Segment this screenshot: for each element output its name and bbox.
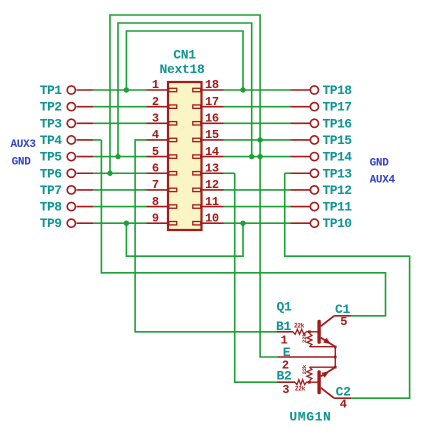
test point TP17 pin line — [291, 106, 311, 108]
test point TP12 circle — [310, 186, 318, 194]
wire R4 top to emitter rail — [309, 366, 335, 368]
wire pin13 down to transistor base B2 — [235, 173, 277, 382]
junction TP15 net outer loop — [257, 137, 262, 142]
wire outer loop TP6-TP15 net to emitter E — [110, 15, 278, 357]
wire connector pin 17 to TP17 — [224, 106, 291, 108]
svg-text:Q1: Q1 — [277, 300, 293, 315]
test point TP8 pin line — [77, 206, 94, 208]
resistor R2 22k base-emitter upper — [307, 333, 312, 346]
test point TP15 pin line — [291, 139, 311, 141]
connector pin 12 line — [202, 189, 224, 191]
test point TP3 circle — [67, 119, 75, 127]
svg-text:TP8: TP8 — [40, 200, 63, 215]
test point TP18 circle — [310, 86, 318, 94]
svg-text:TP1: TP1 — [40, 83, 63, 98]
svg-text:7: 7 — [152, 178, 159, 192]
connector pin 10 clip — [193, 222, 201, 225]
connector pin 8 clip — [169, 205, 177, 208]
transistor Q1a collector stroke — [321, 316, 334, 326]
connector pin 14 clip — [193, 155, 201, 158]
svg-text:AUX4: AUX4 — [370, 175, 396, 187]
svg-text:B2: B2 — [277, 369, 293, 384]
svg-text:TP2: TP2 — [40, 100, 63, 115]
connector pin 5 clip — [169, 155, 177, 158]
test point TP1 circle — [67, 86, 75, 94]
svg-text:8: 8 — [152, 195, 159, 209]
test point TP9 circle — [67, 219, 75, 227]
wire pin4 to transistor base B1 — [135, 140, 277, 332]
test point TP16 pin line — [291, 122, 311, 124]
wire TP13 stub — [285, 172, 291, 174]
svg-text:TP5: TP5 — [40, 150, 63, 165]
connector pin 8 line — [147, 206, 169, 208]
test point TP5 circle — [67, 153, 75, 161]
emitter pin E line — [278, 356, 336, 358]
svg-text:3: 3 — [282, 383, 289, 397]
test point TP4 circle — [67, 136, 75, 144]
resistor R3 22k base B2 series — [295, 380, 307, 385]
test point TP4 pin line — [77, 139, 94, 141]
test point TP11 pin line — [291, 206, 311, 208]
wire inner loop TP1-TP18 net — [126, 31, 243, 90]
node junction R3-R4 — [308, 381, 311, 384]
wire R2 bottom to emitter rail — [309, 346, 335, 348]
test point TP7 pin line — [77, 189, 94, 191]
test point TP2 pin line — [77, 106, 94, 108]
connector pin 1 clip — [169, 88, 177, 91]
test point TP6 pin line — [77, 172, 94, 174]
connector pin 3 clip — [169, 122, 177, 125]
wire middle loop TP5-TP14 GND net — [118, 23, 252, 157]
junction TP10 net — [240, 221, 245, 226]
connector pin 14 line — [202, 156, 224, 158]
connector pin 18 line — [202, 89, 224, 91]
svg-text:2: 2 — [152, 95, 159, 109]
svg-text:UMG1N: UMG1N — [289, 410, 331, 425]
connector pin 18 clip — [193, 88, 201, 91]
test point TP2 circle — [67, 103, 75, 111]
test point TP10 pin line — [291, 222, 311, 224]
svg-text:TP7: TP7 — [40, 183, 62, 198]
test point TP3 pin line — [77, 122, 94, 124]
svg-text:TP11: TP11 — [323, 200, 353, 215]
wire TP13 down to collector C2 — [285, 173, 410, 398]
wire connector pin 14 to TP14 — [224, 156, 291, 158]
test point TP7 circle — [67, 186, 75, 194]
svg-text:4: 4 — [340, 398, 347, 412]
wire TP9 to connector pin 9 — [93, 222, 147, 224]
svg-text:5: 5 — [152, 145, 159, 159]
svg-text:6: 6 — [152, 161, 159, 175]
svg-text:TP6: TP6 — [40, 166, 63, 181]
svg-text:TP15: TP15 — [323, 133, 353, 148]
connector pin 9 line — [147, 222, 169, 224]
connector pin 4 clip — [169, 138, 177, 141]
transistor Q1b base B2 pin line — [277, 381, 295, 383]
junction TP14 net outer loop — [257, 154, 262, 159]
svg-text:CN1: CN1 — [173, 48, 196, 63]
test point TP14 pin line — [291, 156, 311, 158]
test point TP13 circle — [310, 169, 318, 177]
svg-text:TP10: TP10 — [323, 216, 353, 231]
connector pin 3 line — [147, 122, 169, 124]
svg-text:15: 15 — [205, 128, 219, 142]
wire TP4 stub — [93, 139, 101, 141]
svg-text:22k: 22k — [294, 322, 305, 329]
wire TP6 to connector pin 6 — [93, 172, 147, 174]
wire TP3 to connector pin 3 — [93, 122, 147, 124]
wire pin13 stub — [224, 172, 235, 174]
connector pin 10 line — [202, 222, 224, 224]
svg-text:22k: 22k — [301, 364, 308, 374]
connector pin 7 line — [147, 189, 169, 191]
test point TP18 pin line — [291, 89, 311, 91]
node junction R1-R2 — [308, 330, 311, 333]
svg-text:1: 1 — [152, 78, 159, 92]
svg-text:17: 17 — [205, 95, 219, 109]
wire connector pin 18 to TP18 — [224, 89, 291, 91]
junction TP5 net — [115, 154, 120, 159]
svg-text:5: 5 — [340, 315, 347, 329]
test point TP14 circle — [310, 153, 318, 161]
junction TP1 net — [124, 87, 129, 92]
svg-text:3: 3 — [152, 112, 159, 126]
svg-text:TP9: TP9 — [40, 216, 63, 231]
wire TP9 net jumper to TP10 net — [126, 223, 243, 256]
test point TP10 circle — [310, 219, 318, 227]
wire TP8 to connector pin 8 — [93, 206, 147, 208]
wire TP1 to connector pin 1 — [93, 89, 147, 91]
svg-text:16: 16 — [205, 112, 219, 126]
connector pin 15 line — [202, 139, 224, 141]
connector pin 11 line — [202, 206, 224, 208]
test point TP13 pin line — [291, 172, 311, 174]
transistor Q1b base bar — [317, 370, 320, 394]
connector pin 16 clip — [193, 122, 201, 125]
svg-text:TP17: TP17 — [323, 100, 352, 115]
connector pin 4 line — [147, 139, 169, 141]
connector pin 15 clip — [193, 138, 201, 141]
wire R1 to base bar — [306, 331, 318, 333]
collector C2 pin line — [334, 397, 351, 399]
svg-text:Next18: Next18 — [159, 62, 205, 77]
svg-text:TP14: TP14 — [323, 150, 353, 165]
wire R3 to base bar lower — [306, 381, 318, 383]
svg-text:TP3: TP3 — [40, 116, 63, 131]
svg-text:11: 11 — [205, 195, 219, 209]
test point TP9 pin line — [77, 222, 94, 224]
svg-text:TP18: TP18 — [323, 83, 353, 98]
connector pin 2 clip — [169, 105, 177, 108]
wire connector pin 11 to TP11 — [224, 206, 291, 208]
transistor Q1a base bar — [317, 320, 320, 344]
connector pin 12 clip — [193, 188, 201, 191]
svg-text:9: 9 — [152, 211, 159, 225]
junction TP9 net — [124, 221, 129, 226]
connector pin 17 clip — [193, 105, 201, 108]
transistor Q1a emitter stroke with arrow — [321, 338, 336, 347]
test point TP6 circle — [67, 169, 75, 177]
svg-text:13: 13 — [205, 161, 219, 175]
test point TP12 pin line — [291, 189, 311, 191]
wire TP7 to connector pin 7 — [93, 189, 147, 191]
svg-text:22k: 22k — [295, 386, 306, 393]
connector pin 6 line — [147, 172, 169, 174]
connector pin 2 line — [147, 106, 169, 108]
resistor R1 22k base B1 series — [293, 329, 306, 334]
test point TP16 circle — [310, 119, 318, 127]
connector CN1 body — [168, 82, 202, 230]
connector pin 17 line — [202, 106, 224, 108]
test point TP1 pin line — [77, 89, 94, 91]
connector pin 13 line — [202, 172, 224, 174]
svg-text:TP4: TP4 — [40, 133, 63, 148]
svg-text:GND: GND — [370, 157, 390, 169]
svg-text:18: 18 — [205, 78, 219, 92]
svg-text:4: 4 — [152, 128, 159, 142]
svg-text:AUX3: AUX3 — [11, 139, 37, 151]
svg-text:TP12: TP12 — [323, 183, 353, 198]
wire TP2 to connector pin 2 — [93, 106, 147, 108]
test point TP5 pin line — [77, 156, 94, 158]
connector pin 1 line — [147, 89, 169, 91]
svg-text:10: 10 — [205, 211, 219, 225]
svg-text:TP16: TP16 — [323, 116, 353, 131]
connector pin 13 clip — [193, 172, 201, 175]
connector pin 9 clip — [169, 222, 177, 225]
junction TP6 net — [107, 171, 112, 176]
resistor R4 22k base-emitter lower — [307, 367, 312, 381]
connector pin 16 line — [202, 122, 224, 124]
wire TP5 to connector pin 5 — [93, 156, 147, 158]
collector C1 pin line — [334, 315, 351, 317]
svg-text:22k: 22k — [301, 333, 308, 343]
test point TP17 circle — [310, 103, 318, 111]
svg-text:14: 14 — [205, 145, 219, 159]
connector pin 7 clip — [169, 188, 177, 191]
connector pin 6 clip — [169, 172, 177, 175]
svg-text:GND: GND — [12, 156, 32, 168]
transistor Q1b emitter stroke with arrow — [321, 367, 336, 376]
connector pin 11 clip — [193, 205, 201, 208]
svg-text:B1: B1 — [276, 319, 292, 334]
svg-text:TP13: TP13 — [323, 166, 353, 181]
junction TP18 net — [240, 87, 245, 92]
junction TP14 net middle loop — [249, 154, 254, 159]
wire connector pin 12 to TP12 — [224, 189, 291, 191]
wire TP4 down to node H2 — [101, 140, 385, 316]
emitter rail node squares — [334, 346, 337, 349]
wire connector pin 10 to TP10 — [224, 222, 291, 224]
wire connector pin 15 to TP15 — [224, 139, 291, 141]
emitter rail — [334, 347, 336, 368]
test point TP15 circle — [310, 136, 318, 144]
svg-text:12: 12 — [205, 178, 219, 192]
test point TP8 circle — [67, 202, 75, 210]
transistor Q1 base B1 pin line — [277, 331, 293, 333]
connector pin 5 line — [147, 156, 169, 158]
test point TP11 circle — [310, 202, 318, 210]
transistor Q1b collector stroke — [321, 388, 334, 398]
wire connector pin 16 to TP16 — [224, 122, 291, 124]
